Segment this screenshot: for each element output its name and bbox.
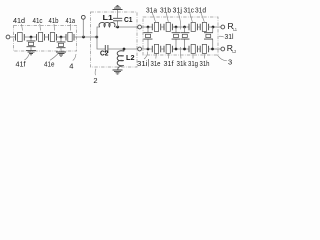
node junction xyxy=(82,36,85,39)
resonator 31l (shunt) xyxy=(204,27,213,49)
node junction xyxy=(30,36,33,39)
leader line 31a xyxy=(152,13,155,22)
wire xyxy=(142,48,153,50)
svg-text:L2: L2 xyxy=(232,49,236,54)
svg-text:31f: 31f xyxy=(164,61,174,68)
resonator 31b xyxy=(164,22,172,31)
leader line 31f xyxy=(167,54,169,59)
wire riser up xyxy=(97,27,100,37)
svg-text:41e: 41e xyxy=(44,62,55,69)
wire xyxy=(115,26,138,28)
leader line 31g xyxy=(192,54,194,59)
wire xyxy=(172,48,189,50)
leader line 31d xyxy=(201,13,204,22)
leader line 41b xyxy=(53,24,56,31)
capacitor C1 xyxy=(113,10,122,27)
svg-text:31e: 31e xyxy=(151,61,161,68)
leader line 3 xyxy=(218,55,227,61)
resonator 31i (shunt) xyxy=(144,27,153,49)
wire xyxy=(142,26,153,28)
resonator 41b xyxy=(49,33,57,42)
svg-text:L1: L1 xyxy=(233,27,237,32)
wire xyxy=(74,36,97,38)
wire xyxy=(45,36,49,38)
wire xyxy=(57,36,67,38)
node junction xyxy=(175,26,178,29)
leader line 31c xyxy=(190,13,193,22)
resonator 31c xyxy=(189,22,197,31)
leader line 41c xyxy=(39,24,42,31)
input terminal xyxy=(6,35,10,39)
svg-text:31j: 31j xyxy=(173,8,183,15)
node junction xyxy=(211,48,214,51)
leader line 31e xyxy=(155,54,158,59)
inductor L2 xyxy=(117,49,124,70)
resonator 31a xyxy=(152,22,160,31)
dash-dot box matching network xyxy=(91,12,138,67)
svg-text:41d: 41d xyxy=(13,18,25,25)
node junction xyxy=(123,48,126,51)
leader line 31i xyxy=(144,52,148,60)
leader line 31h xyxy=(204,54,206,59)
node junction xyxy=(183,48,186,51)
terminal (top, matching to filter) xyxy=(138,25,142,29)
svg-text:C2: C2 xyxy=(100,51,109,58)
bottom rail resonator 31e xyxy=(152,44,160,53)
leader line 41d xyxy=(22,24,23,31)
capacitor C2 xyxy=(105,45,108,53)
resonator 41d xyxy=(16,33,25,42)
node junction xyxy=(212,26,215,29)
svg-text:31i: 31i xyxy=(137,61,148,68)
antenna terminal xyxy=(81,15,85,19)
dash-dot box 4 (left filter block) xyxy=(14,26,77,52)
svg-text:41f: 41f xyxy=(16,61,26,68)
leader line 31j xyxy=(178,13,181,30)
svg-text:31g: 31g xyxy=(188,61,198,68)
wire xyxy=(172,26,189,28)
resonator 31k (shunt) xyxy=(181,27,190,49)
resonator 31h xyxy=(200,44,208,53)
terminal (bottom, matching to filter) xyxy=(138,47,142,51)
svg-text:31d: 31d xyxy=(195,8,206,15)
svg-text:2: 2 xyxy=(93,76,97,85)
wire xyxy=(161,48,164,50)
wire xyxy=(108,48,138,50)
wire xyxy=(197,26,200,28)
leader line 41a xyxy=(70,24,72,31)
node junction xyxy=(147,48,150,51)
leader line 41e xyxy=(50,53,59,60)
leader line 31b xyxy=(166,13,168,22)
svg-text:31h: 31h xyxy=(200,61,210,68)
resonator 31j (shunt) xyxy=(172,27,181,49)
output terminal bottom xyxy=(221,47,225,51)
resonator 41c xyxy=(37,33,45,42)
wire xyxy=(10,36,16,38)
svg-text:4: 4 xyxy=(69,61,73,70)
leader line 4 xyxy=(73,54,76,61)
svg-text:C1: C1 xyxy=(124,17,133,24)
svg-text:L2: L2 xyxy=(126,55,135,62)
wire xyxy=(197,48,200,50)
node junction xyxy=(147,26,150,29)
svg-text:3: 3 xyxy=(228,58,232,67)
svg-text:31a: 31a xyxy=(146,8,157,15)
wire xyxy=(209,26,221,28)
node junction xyxy=(60,36,63,39)
svg-text:41a: 41a xyxy=(66,18,76,25)
svg-text:41c: 41c xyxy=(33,18,43,25)
svg-text:41b: 41b xyxy=(49,18,59,25)
svg-text:31c: 31c xyxy=(184,8,195,15)
ground xyxy=(113,70,123,74)
ground (top, flipped) xyxy=(113,5,123,9)
node junction xyxy=(183,26,186,29)
ground xyxy=(56,52,66,56)
leader line 2 xyxy=(94,69,97,75)
ground xyxy=(26,51,36,55)
resonator 31g xyxy=(189,44,197,53)
resonator 31d xyxy=(200,22,208,31)
svg-text:31l: 31l xyxy=(225,34,234,41)
svg-text:L1: L1 xyxy=(103,15,114,22)
resonator 41a xyxy=(66,33,74,42)
resonator 31f xyxy=(164,44,172,53)
wire xyxy=(209,48,221,50)
leader line 41f xyxy=(25,52,30,60)
wire xyxy=(161,26,164,28)
dash-dot box right filter block xyxy=(143,17,218,55)
resonator 41e (shunt) xyxy=(57,37,66,52)
inductor L1 xyxy=(99,22,115,27)
node junction xyxy=(95,36,98,39)
resonator 41f (shunt) xyxy=(27,37,36,50)
node junction xyxy=(116,26,119,29)
wire xyxy=(24,36,36,38)
wire riser down xyxy=(97,37,105,49)
output terminal top xyxy=(221,25,225,29)
tick mark near 31i xyxy=(148,59,150,67)
leader line 31k xyxy=(179,47,182,59)
leader line 31l xyxy=(219,35,224,38)
node junction xyxy=(175,48,178,51)
svg-text:31b: 31b xyxy=(160,8,171,15)
wire riser to antenna terminal xyxy=(82,19,84,37)
svg-text:31k: 31k xyxy=(177,61,187,68)
